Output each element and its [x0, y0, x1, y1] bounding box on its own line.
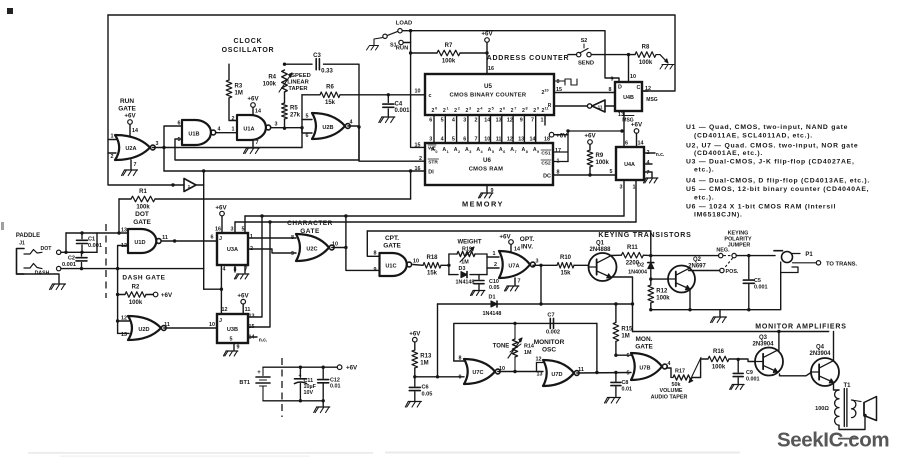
svg-text:1: 1	[232, 127, 235, 133]
pin 9 U1C	[374, 267, 377, 273]
junction R7 +6V node	[485, 51, 488, 54]
pin 7 U3A	[245, 267, 248, 273]
pin 4 U1B	[218, 127, 221, 133]
svg-text:2: 2	[454, 108, 457, 114]
svg-text:0.05: 0.05	[489, 285, 500, 291]
capacitor C6	[409, 377, 432, 401]
wire U7C out	[498, 371, 543, 373]
wire R1 line to DI	[410, 171, 412, 199]
wire U1C pin8 loop	[367, 231, 379, 256]
pin 7 U6 top	[475, 137, 478, 143]
wire U7D pin12 jog	[537, 363, 544, 372]
pin 10 U2C	[332, 242, 338, 248]
svg-text:DI: DI	[428, 170, 434, 176]
junction Q2 rail	[688, 308, 691, 311]
svg-text:WEIGHT: WEIGHT	[458, 240, 482, 246]
svg-text:MSG: MSG	[646, 97, 658, 103]
svg-text:2: 2	[458, 150, 460, 154]
svg-text:+: +	[299, 373, 302, 379]
wire osc loop left	[454, 323, 597, 361]
svg-text:U4B: U4B	[623, 95, 634, 101]
svg-text:4: 4	[647, 160, 650, 166]
pin 3 U5 bottom	[463, 118, 466, 124]
switch S1	[367, 29, 409, 52]
svg-text:5: 5	[610, 169, 613, 175]
ground C8	[605, 398, 621, 404]
svg-text:6: 6	[211, 235, 214, 241]
label 2^10 U5	[542, 89, 549, 97]
svg-text:0.001: 0.001	[88, 243, 102, 249]
wire U4A pin4	[644, 163, 652, 165]
capacitor C10	[474, 275, 500, 291]
pin 4 U4A	[647, 160, 650, 166]
IC U6 CMOS RAM	[425, 143, 553, 185]
wire T1 bottom	[839, 416, 865, 430]
svg-text:8: 8	[291, 235, 294, 241]
svg-text:GATE: GATE	[118, 106, 136, 113]
junction C5 top	[747, 254, 750, 257]
wire D2 node to Q2 base	[651, 278, 668, 280]
svg-text:+6V: +6V	[161, 292, 173, 299]
label n.c. U3B	[259, 338, 268, 344]
junction keying node	[649, 254, 652, 257]
pin DC U6	[543, 174, 551, 180]
svg-text:J1: J1	[19, 241, 25, 247]
wire R7 left	[411, 52, 437, 54]
wire jack sleeve gnd	[17, 274, 60, 283]
svg-text:0.05: 0.05	[422, 392, 433, 398]
pin 6 U4A	[625, 141, 628, 147]
resistor R13	[412, 350, 432, 368]
svg-text:3: 3	[469, 150, 471, 154]
svg-text:MONITOR AMPLIFIERS: MONITOR AMPLIFIERS	[755, 324, 846, 331]
wire U4A pin1 to bus2	[635, 180, 637, 222]
label U5 name	[450, 93, 527, 99]
svg-text:C5: C5	[754, 278, 761, 284]
svg-text:D2: D2	[637, 263, 644, 269]
pin 2 U6	[419, 156, 422, 162]
svg-text:5: 5	[492, 150, 494, 154]
svg-text:U7D: U7D	[551, 372, 562, 378]
svg-text:R1: R1	[139, 189, 147, 195]
wire R10 to Q1	[574, 264, 589, 266]
pin 5 U3A	[242, 227, 245, 233]
diode D1	[483, 295, 502, 318]
label ADDRESS COUNTER	[487, 55, 570, 62]
svg-text:Q2: Q2	[693, 257, 702, 263]
pin 3 U6 top	[429, 137, 432, 143]
svg-text:100k: 100k	[712, 364, 726, 370]
svg-text:1: 1	[447, 150, 449, 154]
wire keying bottom rail	[651, 273, 781, 310]
svg-text:4: 4	[668, 361, 671, 367]
pin J U3B	[219, 318, 222, 324]
wire U2B pin5 stub	[302, 119, 312, 121]
svg-text:10: 10	[413, 259, 419, 265]
pin 8 U3A	[234, 267, 237, 273]
pin 10 U6 top	[484, 137, 490, 143]
pin 14 U2A	[132, 128, 138, 134]
svg-text:3: 3	[275, 122, 278, 128]
svg-text:SeekIC.com: SeekIC.com	[777, 429, 889, 452]
wire Q4 collector	[833, 332, 835, 362]
svg-text:R15: R15	[621, 326, 633, 332]
pin 8 U7C	[459, 356, 462, 362]
junction U1A out node	[283, 127, 286, 130]
wire R13 bottom	[414, 368, 416, 377]
label U6 name	[469, 167, 504, 173]
wire U5 pin1 stub	[544, 115, 546, 125]
power +6V U2A	[124, 113, 136, 125]
svg-text:+6V: +6V	[481, 31, 493, 38]
svg-text:6: 6	[503, 150, 505, 154]
svg-text:R19: R19	[462, 247, 472, 253]
wire U2A out down to DI line	[163, 148, 165, 172]
junction buffer input	[171, 183, 174, 186]
pin 10 U3B	[209, 322, 215, 328]
weight network frame	[449, 254, 487, 275]
ground U4A	[643, 178, 657, 183]
junction R1 DI	[409, 169, 412, 172]
wire R1 line left	[119, 198, 131, 200]
wire U2D pin13 stub	[118, 332, 129, 334]
label AUDIO TAPER	[651, 395, 688, 401]
pin 16 U3A	[215, 227, 221, 233]
transistor Q2	[668, 257, 707, 293]
label SPEED	[291, 73, 311, 79]
svg-text:2: 2	[488, 108, 491, 114]
junction D1 tap	[539, 302, 542, 305]
svg-text:11: 11	[578, 367, 584, 373]
pin 2 U1A	[232, 116, 235, 122]
junction dot line	[64, 251, 67, 254]
svg-text:1M: 1M	[621, 333, 629, 339]
capacitor C12	[318, 367, 341, 401]
pin 9 U2C	[291, 251, 294, 257]
pin 1 U4A	[633, 185, 636, 191]
svg-text:6: 6	[429, 118, 432, 124]
svg-text:5: 5	[230, 337, 233, 343]
svg-text:C2: C2	[68, 256, 75, 262]
svg-text:11: 11	[164, 322, 170, 328]
wire bus1 left drop	[244, 216, 246, 233]
wire D1 vertical	[437, 304, 439, 377]
pin 13 U6 top	[518, 137, 524, 143]
wire vertical node X	[203, 171, 205, 289]
svg-text:2: 2	[475, 118, 478, 124]
pin 1 U5 bottom	[541, 118, 544, 124]
svg-text:1: 1	[541, 118, 544, 124]
svg-text:0.001: 0.001	[746, 377, 760, 383]
wire U2B out to STR	[359, 128, 425, 161]
pin 14 U1A	[255, 109, 261, 115]
svg-text:C7: C7	[547, 313, 554, 319]
resistor R6	[320, 85, 340, 107]
svg-text:SEND: SEND	[578, 61, 594, 67]
svg-text:TO TRANS.: TO TRANS.	[826, 262, 858, 268]
pin 1 U2A	[111, 134, 114, 140]
wire U2D output	[164, 327, 217, 329]
wire U1A out to U2B	[272, 128, 313, 133]
wire R6 left	[302, 94, 320, 96]
junction R15 pin6	[614, 354, 617, 357]
svg-text:0.001: 0.001	[62, 262, 76, 268]
label J1	[19, 241, 25, 247]
svg-text:R11: R11	[627, 245, 638, 251]
junction U2A out	[162, 146, 165, 149]
svg-text:+6V: +6V	[409, 331, 421, 338]
svg-text:14: 14	[484, 118, 490, 124]
resistor R10	[557, 255, 574, 277]
wire U4A pin2 nc	[644, 152, 655, 154]
svg-text:5: 5	[492, 107, 494, 111]
capacitor C8	[611, 373, 632, 397]
transistor Q1	[589, 241, 617, 282]
resistor R5	[282, 103, 301, 119]
svg-text:4: 4	[218, 127, 221, 133]
junction C2 bottom	[80, 267, 83, 270]
pin 11 U2D	[164, 322, 170, 328]
svg-text:CMOS BINARY COUNTER: CMOS BINARY COUNTER	[450, 93, 527, 99]
svg-text:U4 — Dual-CMOS, D flip-flop (C: U4 — Dual-CMOS, D flip-flop (CD4013AE, e…	[686, 178, 870, 185]
svg-text:4: 4	[452, 118, 455, 124]
svg-text:C4: C4	[395, 102, 403, 108]
pin 4 U5 bottom	[452, 118, 455, 124]
svg-text:TONE: TONE	[493, 344, 510, 350]
nor-gate U7B	[631, 353, 667, 380]
pin 5 U2B	[306, 114, 309, 120]
svg-text:C8: C8	[622, 380, 629, 386]
svg-text:SPEED: SPEED	[291, 73, 311, 79]
svg-text:5: 5	[242, 227, 245, 233]
pin 7 U1A	[256, 140, 259, 146]
wire left frame vertical	[108, 15, 184, 185]
wire R5 bottom	[284, 119, 286, 128]
svg-text:5: 5	[452, 137, 455, 143]
wire U1A pin14	[252, 107, 254, 115]
pin 10 U4B	[630, 74, 636, 80]
pin 4 U2B	[350, 120, 353, 126]
svg-text:6: 6	[503, 107, 505, 111]
nand-gate U1D	[128, 229, 161, 253]
junction DI buffer	[202, 169, 205, 172]
svg-text:+6V: +6V	[346, 365, 358, 372]
wire C3 to U2B output vertical	[324, 64, 360, 128]
wire U5 2^10 to U4B pin8	[554, 92, 615, 94]
wire U2A run line to U2B	[164, 147, 302, 149]
svg-text:MEMORY: MEMORY	[462, 200, 504, 209]
svg-text:CS1: CS1	[541, 151, 551, 157]
power +6V U7A	[499, 234, 513, 245]
pin 6 U7B	[627, 353, 630, 359]
transformer T1 secondary	[852, 400, 862, 418]
wire CPT feedback top	[367, 231, 651, 256]
resistor R11	[621, 245, 643, 267]
pin 3 U1A	[275, 122, 278, 128]
parts list text	[686, 124, 870, 219]
svg-text:U1 — Quad, CMOS, two-input, NA: U1 — Quad, CMOS, two-input, NAND gate	[686, 124, 848, 131]
svg-text:GATE: GATE	[383, 243, 401, 250]
svg-text:5: 5	[178, 137, 181, 143]
svg-text:3: 3	[463, 118, 466, 124]
wire U2C out down to U1C	[346, 248, 380, 271]
wire U2A pin7 gnd	[130, 160, 132, 169]
svg-text:6: 6	[463, 137, 466, 143]
label VOLUME	[659, 388, 682, 394]
svg-text:OPT.: OPT.	[520, 236, 535, 243]
wire Q4 emitter down	[834, 384, 840, 390]
pin 16 U6	[415, 166, 421, 172]
svg-text:7: 7	[518, 279, 521, 285]
dashed boundary battery	[281, 358, 283, 417]
wire DI line	[164, 170, 425, 172]
svg-text:11: 11	[245, 307, 251, 313]
svg-text:CS2: CS2	[541, 161, 551, 167]
watermark SeekIC.com	[777, 429, 889, 452]
wire bus2 left drop	[234, 222, 236, 233]
pin 5 U7B	[627, 371, 630, 377]
pin 5 U6 top	[452, 137, 455, 143]
svg-text:NEG.: NEG.	[716, 248, 730, 254]
pin 14 U3B	[249, 335, 255, 341]
wire U5-U6 bus bit 7	[512, 115, 514, 143]
svg-text:CPT.: CPT.	[385, 235, 399, 242]
resistor R2	[125, 284, 146, 306]
wire U3A pin8 stub	[234, 265, 236, 272]
svg-text:17: 17	[555, 148, 561, 154]
junction R15 top	[614, 302, 617, 305]
label CS2-bar U6	[541, 160, 551, 167]
pin 13 U3B	[249, 314, 255, 320]
wire U5-U6 bus bit 3	[467, 115, 469, 143]
ground C4	[379, 117, 395, 123]
potentiometer R19	[457, 247, 475, 266]
wire U2C out up to bus1	[345, 216, 347, 248]
wire U4B pin12 out	[642, 90, 648, 92]
resistor R3	[226, 80, 243, 98]
wire R12 top	[650, 279, 652, 285]
svg-text:U2B: U2B	[322, 125, 333, 131]
wire U5-U6 bus bit 0	[433, 115, 435, 143]
wire U4A pin3 to bus1	[623, 180, 625, 216]
wire dash to node X	[118, 268, 204, 270]
junction C1 top	[80, 231, 83, 234]
svg-text:100k: 100k	[656, 296, 670, 302]
svg-text:Q4: Q4	[816, 345, 825, 351]
svg-text:3: 3	[620, 185, 623, 191]
resistor R12	[648, 285, 670, 303]
pin 9 U5 bottom	[520, 118, 523, 124]
svg-text:7: 7	[647, 170, 650, 176]
scan artifact bottom band	[28, 452, 740, 457]
wire U3A pin4 to U3B pin12	[220, 265, 222, 314]
ground U2A	[122, 170, 138, 176]
plug P1	[774, 251, 821, 273]
junction D1 drop	[436, 375, 439, 378]
pin 8 U5 right	[557, 79, 560, 85]
pin 2 U3A	[250, 246, 253, 252]
pin 13 U4B	[618, 112, 624, 118]
wire +6V to U4A pin14	[636, 133, 638, 147]
svg-text:9: 9	[611, 77, 614, 83]
wire battery bottom rail	[263, 400, 323, 402]
svg-text:7: 7	[256, 140, 259, 146]
capacitor C7	[546, 313, 560, 336]
svg-text:R2: R2	[132, 284, 140, 290]
svg-text:10: 10	[332, 242, 338, 248]
svg-text:2: 2	[477, 108, 480, 114]
pin 14 U5 bottom	[484, 118, 490, 124]
wire U2D pin12 stub	[118, 320, 129, 322]
svg-text:+6V: +6V	[247, 96, 259, 103]
svg-text:0.01: 0.01	[622, 387, 633, 393]
svg-text:U7A: U7A	[508, 264, 519, 270]
svg-text:2: 2	[494, 262, 497, 268]
power +6V R13	[409, 331, 421, 343]
junction C1 bottom	[80, 251, 83, 254]
wire keying node to NEG	[651, 255, 719, 257]
pin 7 U4A	[647, 170, 650, 176]
svg-text:+6V: +6V	[556, 133, 568, 140]
wire U3B pin13 to bus1	[248, 216, 262, 317]
junction weight left	[447, 264, 450, 267]
paddle dash contact	[24, 264, 61, 277]
wire U5-U6 bus bit 4	[478, 115, 480, 143]
svg-text:7: 7	[531, 118, 534, 124]
wire U2A pin2 stub	[108, 152, 116, 154]
junction C4 node	[387, 93, 390, 96]
wire U7A out	[533, 264, 557, 266]
wire U1A pin2 from R3	[229, 98, 237, 121]
jumper POS contact	[720, 258, 739, 275]
wire R13 top	[414, 342, 416, 350]
svg-text:U6 — 1024 X 1-bit CMOS RAM (In: U6 — 1024 X 1-bit CMOS RAM (Intersil	[686, 203, 836, 210]
label MON GATE 2	[635, 344, 653, 351]
label DASH GATE	[122, 275, 165, 282]
wire Q2 emitter down	[689, 289, 691, 310]
pin 6 U1B	[178, 121, 181, 127]
svg-text:etc.).: etc.).	[694, 166, 714, 173]
resistor R1	[131, 189, 155, 211]
svg-text:U2, U7 — Quad. CMOS. two-input: U2, U7 — Quad. CMOS. two-input, NOR gate	[686, 143, 858, 150]
svg-text:14: 14	[255, 109, 261, 115]
junction U2B in	[300, 126, 303, 129]
pin 6 U2B	[306, 133, 309, 139]
transistor Q4	[809, 345, 839, 387]
label KEYING POLARITY 1	[728, 231, 749, 237]
svg-text:U6: U6	[483, 157, 491, 164]
wire R9 top	[589, 144, 591, 150]
label MSG-bar U4B	[622, 116, 634, 124]
ground C6	[405, 402, 421, 408]
wire S2 left stub	[568, 54, 577, 56]
svg-text:2N4888: 2N4888	[589, 247, 611, 253]
wire dot contact line	[61, 251, 97, 253]
svg-text:R18: R18	[426, 255, 438, 261]
svg-text:VOLUME: VOLUME	[659, 388, 682, 394]
speaker	[864, 397, 877, 421]
pin 13 U7D	[537, 372, 543, 378]
wire U4B pin13 down	[623, 111, 625, 147]
inverter U5 reset	[587, 100, 605, 112]
svg-text:1N4148: 1N4148	[483, 311, 502, 317]
svg-text:3: 3	[536, 259, 539, 265]
svg-text:1M: 1M	[461, 260, 469, 266]
nand-gate U1C	[380, 253, 412, 276]
svg-text:U3 — Dual-CMOS, J-K flip-flop: U3 — Dual-CMOS, J-K flip-flop (CD4027AE,	[686, 159, 855, 166]
label PADDLE	[16, 233, 40, 239]
svg-text:10: 10	[484, 137, 490, 143]
